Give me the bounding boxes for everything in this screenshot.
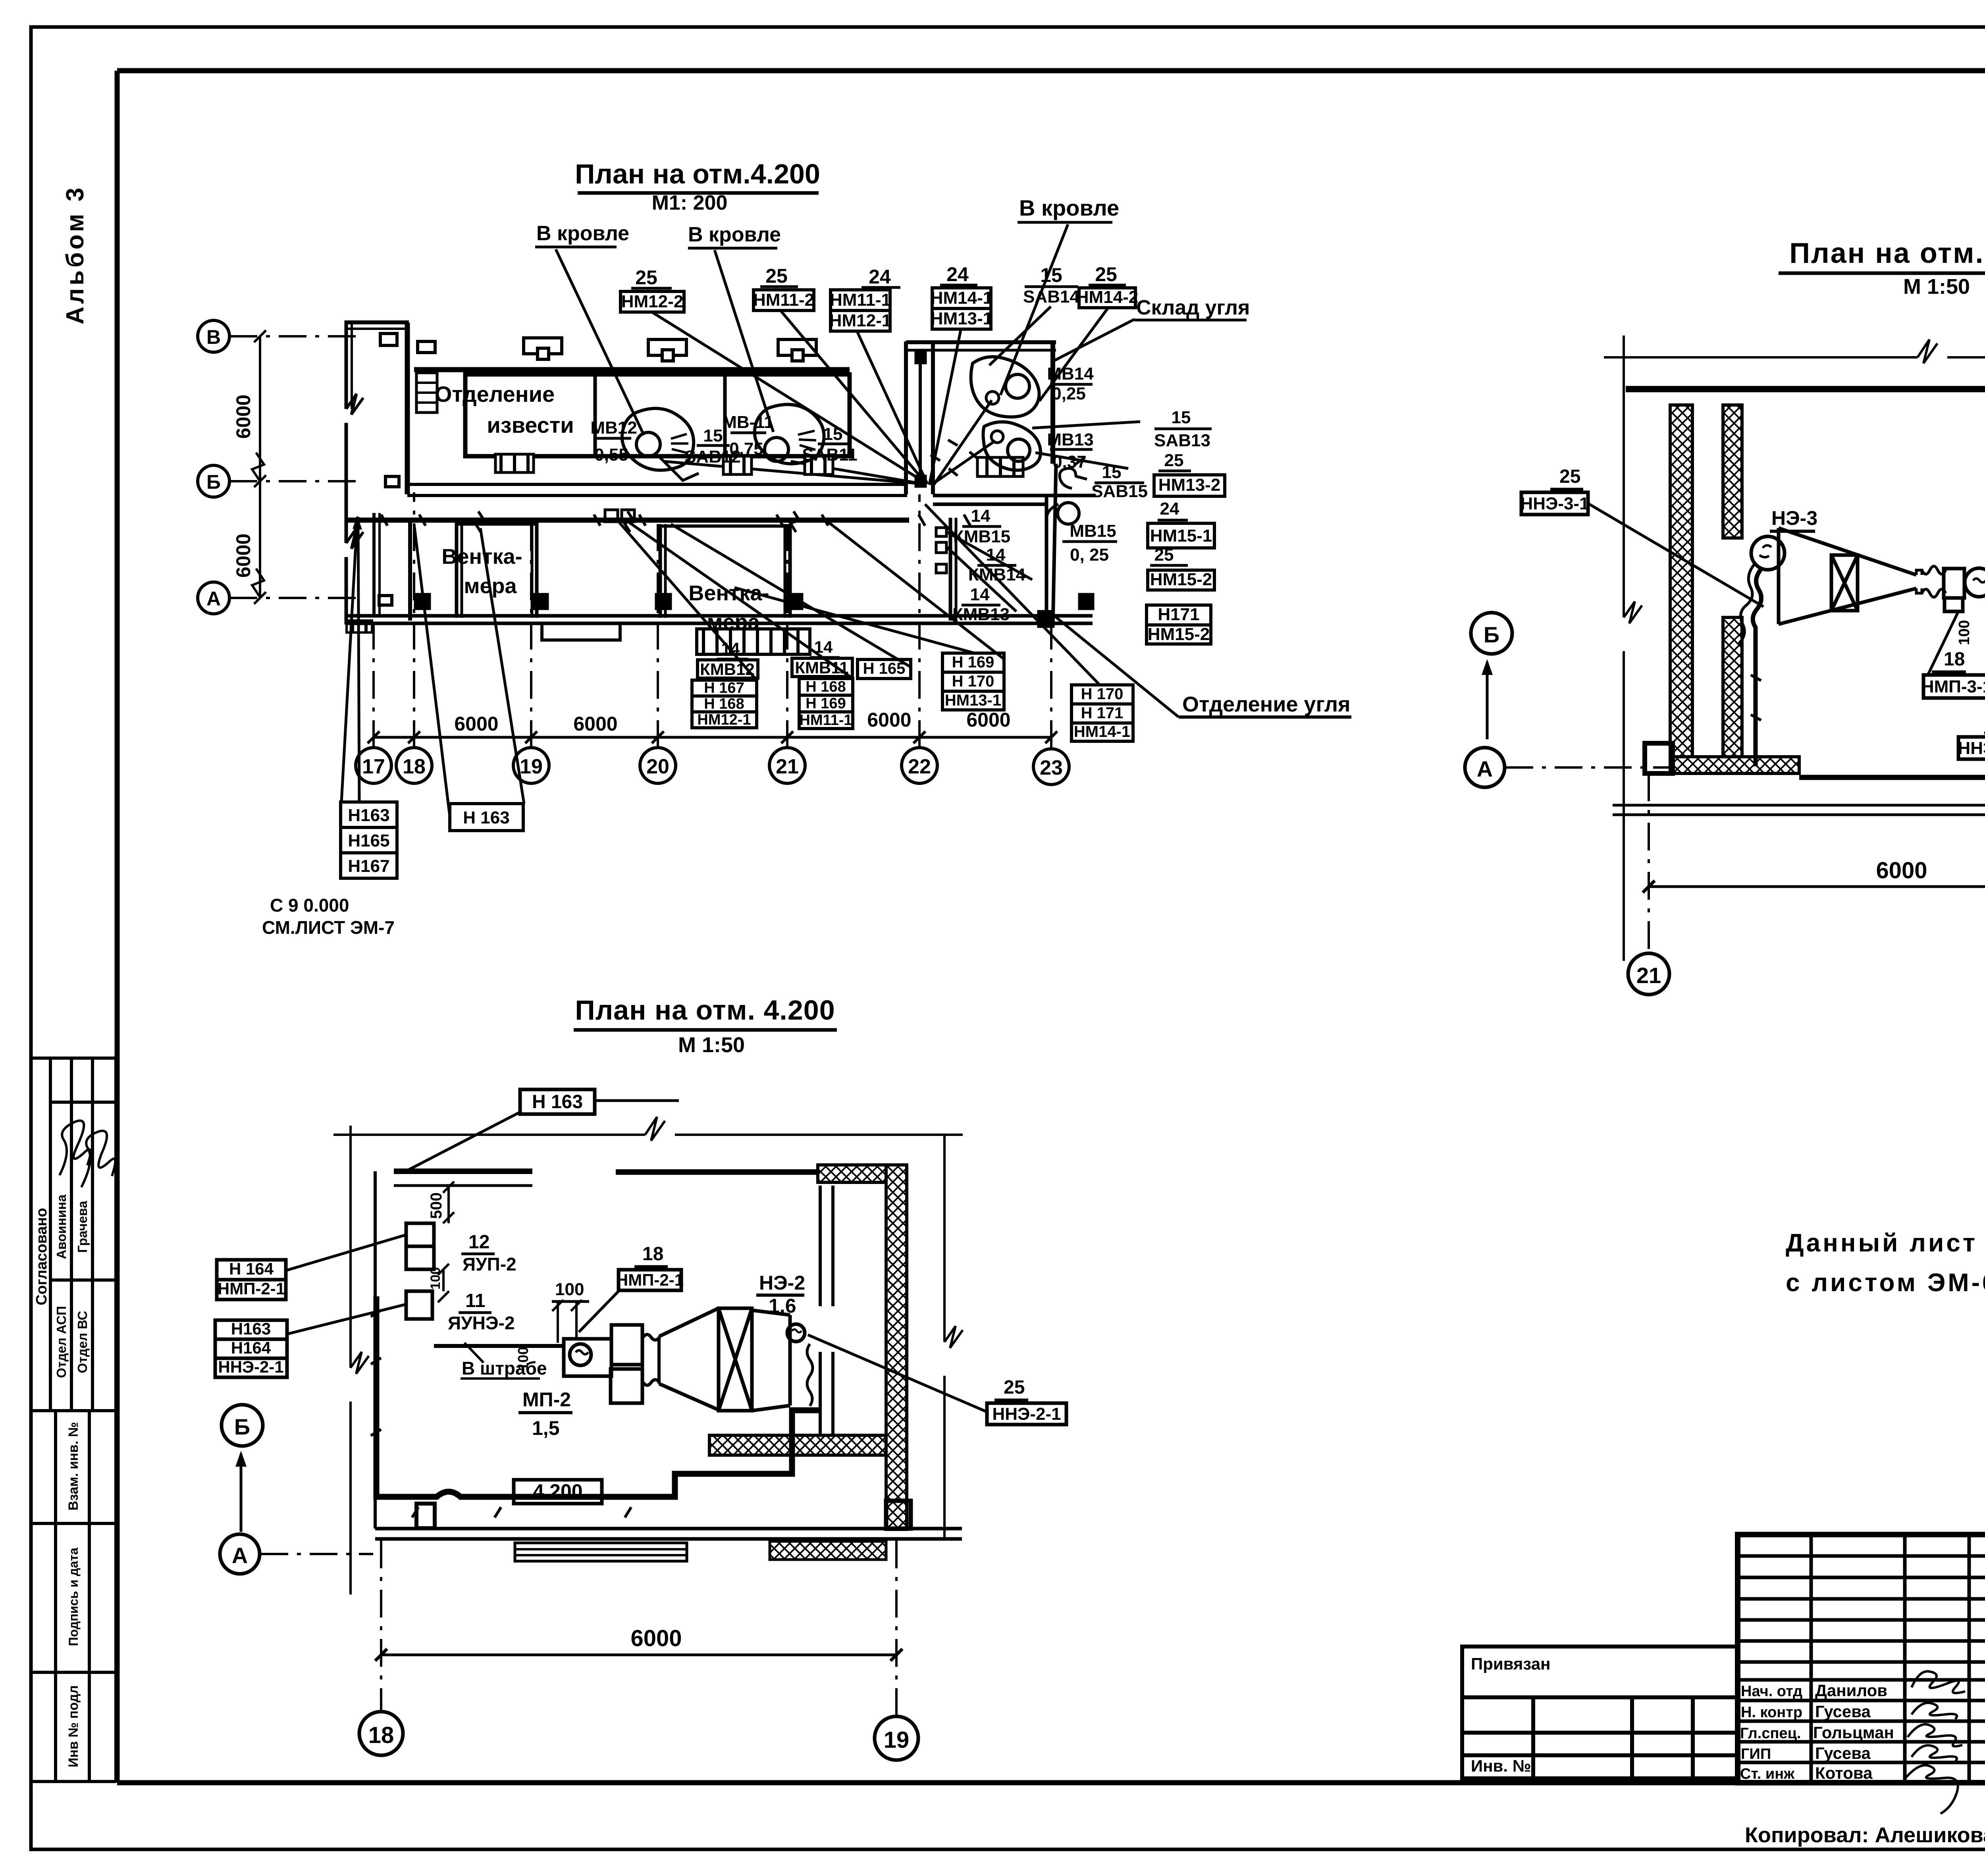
- svg-text:19: 19: [884, 1727, 910, 1753]
- svg-text:Гольцман: Гольцман: [1813, 1723, 1894, 1742]
- svg-text:Котова: Котова: [1815, 1764, 1873, 1782]
- svg-text:В: В: [206, 326, 221, 348]
- svg-text:НЭ-2: НЭ-2: [759, 1272, 805, 1294]
- svg-text:6000: 6000: [573, 713, 617, 735]
- svg-text:МП-2: МП-2: [522, 1388, 571, 1411]
- svg-text:Н165: Н165: [348, 831, 389, 850]
- svg-text:НМ13-1: НМ13-1: [945, 692, 1001, 709]
- svg-text:0,25: 0,25: [1052, 384, 1086, 403]
- svg-text:6000: 6000: [232, 395, 254, 439]
- svg-text:24: 24: [869, 266, 891, 288]
- svg-text:6000: 6000: [630, 1625, 682, 1651]
- svg-text:Ст. инж: Ст. инж: [1740, 1766, 1795, 1782]
- svg-text:Б: Б: [1484, 622, 1499, 647]
- svg-text:Н 168: Н 168: [806, 679, 846, 695]
- svg-text:14: 14: [970, 585, 990, 604]
- svg-text:14: 14: [971, 506, 991, 526]
- svg-text:SAB15: SAB15: [1091, 482, 1148, 501]
- svg-text:25: 25: [765, 265, 788, 287]
- svg-text:НМП-2-1: НМП-2-1: [616, 1271, 684, 1289]
- svg-text:100: 100: [1956, 620, 1973, 645]
- svg-text:11: 11: [465, 1290, 486, 1311]
- svg-text:НМ12-1: НМ12-1: [697, 711, 751, 728]
- svg-text:ННЭ-3-1: ННЭ-3-1: [1520, 494, 1589, 513]
- svg-text:15: 15: [823, 424, 843, 444]
- svg-text:18: 18: [403, 755, 426, 778]
- svg-text:22: 22: [908, 755, 931, 778]
- svg-text:15: 15: [1102, 463, 1122, 482]
- svg-text:Вентка-: Вентка-: [441, 545, 522, 569]
- svg-text:Копировал: Алешикова: Копировал: Алешикова: [1745, 1823, 1985, 1847]
- svg-text:24: 24: [946, 263, 969, 285]
- svg-text:Альбом 3: Альбом 3: [62, 185, 89, 324]
- svg-text:100: 100: [428, 1267, 443, 1290]
- svg-text:Н 167: Н 167: [704, 680, 744, 696]
- svg-text:НМ13-1: НМ13-1: [931, 309, 993, 328]
- svg-text:А: А: [232, 1543, 248, 1568]
- svg-text:Авоинина: Авоинина: [54, 1194, 69, 1259]
- svg-text:SAB13: SAB13: [1154, 431, 1210, 450]
- svg-text:План на отм. 4.200: План на отм. 4.200: [575, 995, 835, 1026]
- svg-text:6000: 6000: [966, 709, 1010, 731]
- svg-text:25: 25: [1004, 1377, 1025, 1398]
- svg-text:А: А: [1477, 756, 1493, 781]
- svg-text:SAB11: SAB11: [802, 445, 857, 465]
- svg-text:НМ14-2: НМ14-2: [1076, 287, 1139, 307]
- svg-text:6000: 6000: [867, 709, 911, 731]
- svg-text:Н163: Н163: [231, 1319, 271, 1338]
- svg-text:НМ14-1: НМ14-1: [931, 288, 993, 308]
- svg-text:В кровле: В кровле: [1019, 195, 1119, 220]
- svg-text:План на отм.4.200: План на отм.4.200: [575, 158, 820, 189]
- svg-text:ГИП: ГИП: [1741, 1746, 1771, 1762]
- svg-text:Склад угля: Склад угля: [1136, 296, 1250, 319]
- svg-text:6000: 6000: [232, 534, 254, 578]
- svg-text:4.200: 4.200: [533, 1480, 582, 1502]
- svg-text:ЯУНЭ-2: ЯУНЭ-2: [448, 1313, 515, 1333]
- svg-text:15: 15: [703, 426, 723, 445]
- svg-text:20: 20: [646, 755, 669, 778]
- svg-text:Н 163: Н 163: [532, 1091, 583, 1112]
- svg-text:Н 163: Н 163: [463, 808, 509, 827]
- svg-text:Н 169: Н 169: [806, 695, 846, 712]
- svg-text:25: 25: [1095, 263, 1117, 285]
- svg-text:МВ15: МВ15: [1070, 521, 1116, 541]
- svg-text:0,75: 0,75: [729, 439, 763, 459]
- svg-text:Н 165: Н 165: [863, 660, 906, 677]
- svg-text:21: 21: [776, 755, 799, 778]
- svg-text:25: 25: [1164, 451, 1184, 470]
- svg-text:Н163: Н163: [348, 806, 389, 825]
- svg-text:Н164: Н164: [231, 1338, 271, 1357]
- svg-text:Н 168: Н 168: [704, 696, 744, 712]
- svg-text:М 1:50: М 1:50: [678, 1033, 745, 1057]
- svg-text:Гл.спец.: Гл.спец.: [1740, 1725, 1801, 1742]
- svg-text:Привязан: Привязан: [1471, 1654, 1550, 1673]
- svg-text:19: 19: [520, 755, 543, 778]
- svg-text:НМ15-2: НМ15-2: [1150, 570, 1212, 589]
- svg-text:Данный лист читать совместно: Данный лист читать совместно: [1786, 1228, 1985, 1257]
- svg-text:А: А: [206, 588, 221, 610]
- svg-text:Н 170: Н 170: [952, 673, 994, 690]
- svg-text:ЯУП-2: ЯУП-2: [463, 1254, 516, 1274]
- svg-text:С 9 0.000: С 9 0.000: [270, 895, 349, 916]
- svg-text:МВ13: МВ13: [1047, 430, 1093, 449]
- svg-text:Н. контр: Н. контр: [1741, 1704, 1802, 1721]
- svg-text:24: 24: [1160, 499, 1179, 519]
- svg-text:НМ12-1: НМ12-1: [829, 311, 892, 330]
- svg-text:НМ15-2: НМ15-2: [1148, 625, 1210, 644]
- svg-text:Б: Б: [234, 1414, 250, 1439]
- svg-text:0,55: 0,55: [594, 445, 628, 465]
- svg-text:В штрабе: В штрабе: [462, 1358, 547, 1379]
- svg-text:Подпись и дата: Подпись и дата: [66, 1548, 81, 1646]
- svg-text:НМ11-2: НМ11-2: [753, 290, 814, 310]
- svg-text:0, 25: 0, 25: [1070, 545, 1109, 565]
- svg-text:НМ14-1: НМ14-1: [1074, 723, 1130, 740]
- svg-text:Согласовано: Согласовано: [33, 1208, 50, 1305]
- svg-text:12: 12: [468, 1232, 490, 1253]
- svg-text:НМП-3-1: НМП-3-1: [1921, 677, 1985, 696]
- svg-text:15: 15: [1172, 408, 1191, 427]
- svg-text:18: 18: [368, 1722, 394, 1748]
- svg-text:МВ12: МВ12: [590, 418, 637, 438]
- svg-text:НМ12-2: НМ12-2: [621, 292, 684, 311]
- svg-text:18: 18: [642, 1244, 663, 1265]
- svg-text:6000: 6000: [1876, 858, 1927, 883]
- svg-text:Грачева: Грачева: [75, 1201, 90, 1253]
- svg-text:Инв № подл: Инв № подл: [66, 1685, 81, 1768]
- svg-text:М1: 200: М1: 200: [652, 191, 728, 214]
- svg-text:Инв. №: Инв. №: [1471, 1756, 1531, 1775]
- svg-text:В кровле: В кровле: [536, 222, 629, 245]
- svg-text:Гусева: Гусева: [1815, 1744, 1871, 1762]
- svg-text:НМ11-1: НМ11-1: [830, 290, 891, 310]
- svg-text:100: 100: [555, 1280, 584, 1299]
- svg-text:25: 25: [1559, 466, 1580, 487]
- svg-text:СМ.ЛИСТ ЭМ-7: СМ.ЛИСТ ЭМ-7: [262, 917, 395, 938]
- svg-text:КМВ13: КМВ13: [952, 605, 1010, 624]
- svg-text:Н 169: Н 169: [952, 654, 994, 671]
- svg-text:ННЭ-2-1: ННЭ-2-1: [992, 1404, 1061, 1424]
- svg-text:М 1:50: М 1:50: [1903, 275, 1970, 299]
- svg-text:6000: 6000: [454, 713, 498, 735]
- svg-text:НМ11-1: НМ11-1: [799, 712, 852, 729]
- svg-text:500: 500: [428, 1192, 445, 1219]
- svg-text:НМ15-1: НМ15-1: [1150, 526, 1212, 546]
- svg-text:Н 171: Н 171: [1081, 704, 1124, 722]
- svg-text:Отдел ВС: Отдел ВС: [75, 1311, 90, 1373]
- svg-text:21: 21: [1636, 963, 1661, 988]
- svg-text:КМВ11: КМВ11: [795, 658, 848, 677]
- svg-text:НЭ-3: НЭ-3: [1771, 507, 1817, 529]
- svg-text:НМ13-2: НМ13-2: [1158, 475, 1221, 495]
- svg-text:Отделение: Отделение: [435, 382, 555, 407]
- svg-text:НМП-2-1: НМП-2-1: [218, 1279, 285, 1298]
- svg-text:1,5: 1,5: [532, 1417, 560, 1439]
- svg-text:Отдел АСП: Отдел АСП: [54, 1306, 69, 1378]
- svg-text:МВ-11: МВ-11: [722, 413, 774, 432]
- svg-text:ННЭ-2-1: ННЭ-2-1: [218, 1357, 283, 1376]
- svg-text:Отделение угля: Отделение угля: [1182, 692, 1351, 716]
- svg-text:ННЭ-3-1: ННЭ-3-1: [1958, 738, 1985, 758]
- svg-text:23: 23: [1040, 756, 1063, 779]
- svg-text:МВ14: МВ14: [1047, 364, 1094, 384]
- svg-text:с листом ЭМ-6 .: с листом ЭМ-6 .: [1786, 1268, 1985, 1297]
- svg-text:Гусева: Гусева: [1815, 1702, 1871, 1721]
- svg-text:SAB14: SAB14: [1023, 287, 1079, 307]
- svg-text:Н171: Н171: [1158, 605, 1199, 624]
- svg-text:Н 164: Н 164: [229, 1259, 274, 1278]
- svg-text:План на отм. 4.200: План на отм. 4.200: [1789, 237, 1985, 269]
- svg-text:25: 25: [635, 266, 657, 289]
- svg-text:Н167: Н167: [348, 856, 389, 876]
- svg-text:извести: извести: [487, 413, 574, 438]
- svg-text:18: 18: [1944, 649, 1965, 670]
- svg-text:В кровле: В кровле: [688, 223, 781, 246]
- svg-text:17: 17: [362, 755, 385, 778]
- svg-text:Данилов: Данилов: [1815, 1681, 1887, 1700]
- svg-text:Нач. отд: Нач. отд: [1741, 1683, 1802, 1700]
- svg-text:Н 170: Н 170: [1081, 685, 1124, 703]
- svg-text:Б: Б: [206, 471, 221, 493]
- svg-text:15: 15: [1040, 264, 1062, 286]
- svg-text:Взам. инв. №: Взам. инв. №: [66, 1422, 81, 1510]
